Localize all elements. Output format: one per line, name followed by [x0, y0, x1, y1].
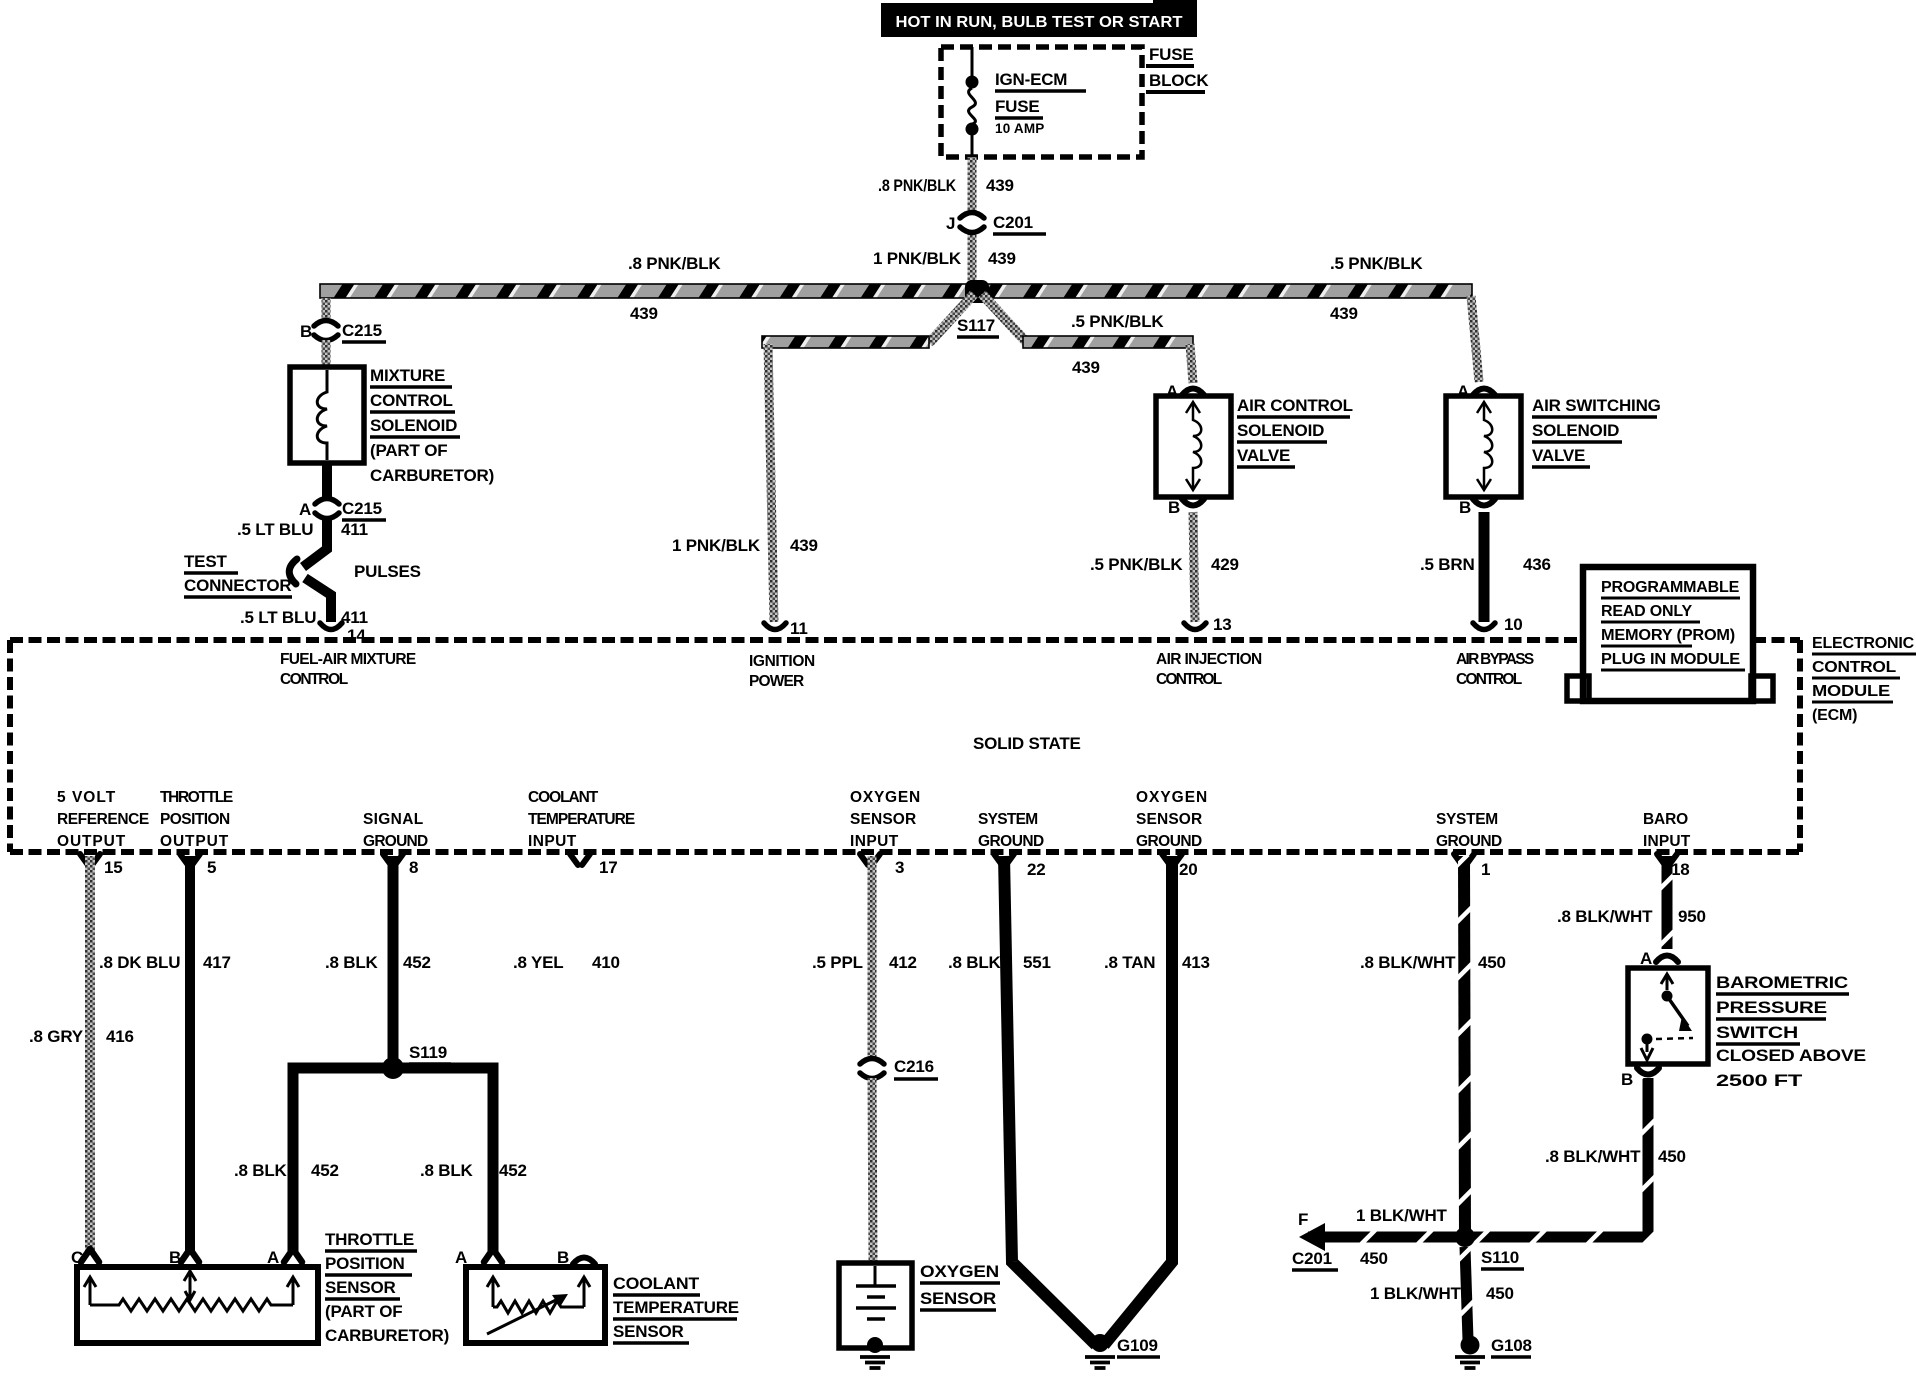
- svg-text:439: 439: [630, 304, 658, 323]
- svg-text:PROGRAMMABLE: PROGRAMMABLE: [1601, 579, 1740, 596]
- svg-text:MEMORY (PROM): MEMORY (PROM): [1601, 627, 1735, 644]
- svg-text:GROUND: GROUND: [1436, 833, 1502, 850]
- svg-text:.8 BLK/WHT: .8 BLK/WHT: [1557, 907, 1653, 926]
- svg-text:SENSOR: SENSOR: [850, 811, 916, 828]
- svg-text:450: 450: [1658, 1147, 1686, 1166]
- svg-text:MIXTURE: MIXTURE: [370, 366, 445, 385]
- svg-text:.8 PNK/BLK: .8 PNK/BLK: [878, 176, 957, 195]
- svg-text:(PART OF: (PART OF: [325, 1302, 402, 1321]
- svg-text:TEST: TEST: [184, 552, 227, 571]
- svg-text:.8 TAN: .8 TAN: [1104, 953, 1155, 972]
- svg-text:A: A: [1640, 949, 1652, 968]
- svg-text:.8 BLK: .8 BLK: [325, 953, 379, 972]
- svg-text:B: B: [300, 322, 312, 341]
- svg-text:A: A: [455, 1248, 467, 1267]
- svg-text:950: 950: [1678, 907, 1706, 926]
- svg-text:INPUT: INPUT: [850, 833, 899, 850]
- svg-text:J: J: [946, 214, 955, 233]
- svg-text:412: 412: [889, 953, 917, 972]
- svg-text:CONTROL: CONTROL: [1456, 671, 1522, 688]
- svg-text:OXYGEN: OXYGEN: [1136, 789, 1207, 806]
- svg-text:10 AMP: 10 AMP: [995, 121, 1044, 136]
- svg-text:439: 439: [1072, 358, 1100, 377]
- svg-text:.5 PPL: .5 PPL: [812, 953, 863, 972]
- svg-text:11: 11: [790, 619, 808, 638]
- svg-text:18: 18: [1671, 860, 1690, 879]
- svg-text:17: 17: [599, 858, 618, 877]
- svg-text:452: 452: [311, 1161, 339, 1180]
- svg-text:452: 452: [403, 953, 431, 972]
- svg-text:B: B: [1621, 1070, 1633, 1089]
- svg-text:BLOCK: BLOCK: [1149, 71, 1209, 90]
- svg-text:439: 439: [986, 176, 1014, 195]
- svg-text:AIR INJECTION: AIR INJECTION: [1156, 651, 1262, 668]
- svg-text:.8 BLK: .8 BLK: [420, 1161, 474, 1180]
- svg-text:SENSOR: SENSOR: [1136, 811, 1202, 828]
- svg-text:.5 PNK/BLK: .5 PNK/BLK: [1330, 254, 1423, 273]
- svg-text:411: 411: [341, 608, 368, 627]
- svg-text:.8 GRY: .8 GRY: [29, 1027, 84, 1046]
- svg-text:429: 429: [1211, 555, 1239, 574]
- svg-text:3: 3: [895, 858, 904, 877]
- svg-text:S119: S119: [409, 1043, 447, 1062]
- svg-text:CONTROL: CONTROL: [370, 391, 453, 410]
- svg-text:BARO: BARO: [1643, 811, 1688, 828]
- svg-text:A: A: [299, 500, 311, 519]
- svg-text:.5 PNK/BLK: .5 PNK/BLK: [1071, 312, 1164, 331]
- svg-text:439: 439: [1330, 304, 1358, 323]
- svg-text:.8 BLK: .8 BLK: [948, 953, 1002, 972]
- svg-text:452: 452: [499, 1161, 527, 1180]
- svg-text:OXYGEN: OXYGEN: [850, 789, 920, 806]
- svg-text:PULSES: PULSES: [354, 562, 421, 581]
- svg-text:FUSE: FUSE: [995, 97, 1040, 116]
- svg-text:410: 410: [592, 953, 620, 972]
- svg-text:GROUND: GROUND: [1136, 833, 1202, 850]
- svg-text:B: B: [1168, 498, 1180, 517]
- svg-text:COOLANT: COOLANT: [613, 1274, 700, 1293]
- svg-text:.8 PNK/BLK: .8 PNK/BLK: [628, 254, 721, 273]
- svg-text:8: 8: [409, 858, 418, 877]
- svg-text:C215: C215: [342, 321, 382, 340]
- svg-text:REFERENCE: REFERENCE: [57, 811, 149, 828]
- svg-text:POSITION: POSITION: [325, 1254, 405, 1273]
- svg-text:.8 DK BLU: .8 DK BLU: [99, 953, 180, 972]
- svg-text:SENSOR: SENSOR: [920, 1289, 996, 1308]
- svg-text:(PART OF: (PART OF: [370, 441, 447, 460]
- svg-text:SOLENOID: SOLENOID: [370, 416, 457, 435]
- svg-text:G108: G108: [1491, 1336, 1532, 1355]
- svg-text:POWER: POWER: [749, 673, 804, 690]
- svg-text:ELECTRONIC: ELECTRONIC: [1812, 635, 1915, 652]
- svg-text:C216: C216: [894, 1057, 934, 1076]
- svg-text:1 BLK/WHT: 1 BLK/WHT: [1370, 1284, 1462, 1303]
- svg-text:13: 13: [1213, 615, 1232, 634]
- svg-text:IGN-ECM: IGN-ECM: [995, 70, 1067, 89]
- svg-text:1 PNK/BLK: 1 PNK/BLK: [672, 536, 761, 555]
- svg-text:TEMPERATURE: TEMPERATURE: [528, 811, 635, 828]
- svg-text:417: 417: [203, 953, 231, 972]
- svg-text:FUEL-AIR MIXTURE: FUEL-AIR MIXTURE: [280, 651, 416, 668]
- svg-text:439: 439: [790, 536, 818, 555]
- svg-text:411: 411: [341, 520, 368, 539]
- svg-text:413: 413: [1182, 953, 1210, 972]
- svg-text:22: 22: [1027, 860, 1046, 879]
- svg-text:.8 YEL: .8 YEL: [513, 953, 563, 972]
- svg-text:.8 BLK/WHT: .8 BLK/WHT: [1360, 953, 1456, 972]
- svg-text:THROTTLE: THROTTLE: [160, 789, 233, 806]
- svg-text:CONNECTOR: CONNECTOR: [184, 576, 291, 595]
- svg-text:B: B: [1459, 498, 1471, 517]
- svg-text:C201: C201: [993, 213, 1033, 232]
- svg-text:5: 5: [207, 858, 216, 877]
- svg-text:THROTTLE: THROTTLE: [325, 1230, 414, 1249]
- svg-text:GROUND: GROUND: [978, 833, 1044, 850]
- svg-text:2500 FT: 2500 FT: [1716, 1071, 1803, 1090]
- svg-text:SWITCH: SWITCH: [1716, 1023, 1798, 1042]
- svg-text:S110: S110: [1481, 1248, 1519, 1267]
- svg-text:.8 BLK/WHT: .8 BLK/WHT: [1545, 1147, 1641, 1166]
- svg-text:SOLID STATE: SOLID STATE: [973, 734, 1081, 753]
- svg-text:CONTROL: CONTROL: [1812, 659, 1896, 676]
- svg-text:INPUT: INPUT: [528, 833, 577, 850]
- svg-text:PRESSURE: PRESSURE: [1716, 998, 1827, 1017]
- svg-text:1 PNK/BLK: 1 PNK/BLK: [873, 249, 962, 268]
- svg-text:5 VOLT: 5 VOLT: [57, 789, 116, 806]
- svg-text:551: 551: [1023, 953, 1051, 972]
- svg-text:.8 BLK: .8 BLK: [234, 1161, 288, 1180]
- svg-text:S117: S117: [957, 316, 995, 335]
- svg-text:CONTROL: CONTROL: [1156, 671, 1222, 688]
- svg-text:INPUT: INPUT: [1643, 833, 1691, 850]
- svg-text:CONTROL: CONTROL: [280, 671, 348, 688]
- svg-text:.5 PNK/BLK: .5 PNK/BLK: [1090, 555, 1183, 574]
- svg-text:COOLANT: COOLANT: [528, 789, 599, 806]
- svg-text:10: 10: [1504, 615, 1523, 634]
- svg-text:VALVE: VALVE: [1237, 446, 1290, 465]
- svg-text:C: C: [71, 1248, 83, 1267]
- svg-text:416: 416: [106, 1027, 134, 1046]
- svg-text:1 BLK/WHT: 1 BLK/WHT: [1356, 1206, 1448, 1225]
- svg-text:MODULE: MODULE: [1812, 683, 1891, 700]
- svg-text:SYSTEM: SYSTEM: [978, 811, 1038, 828]
- svg-text:VALVE: VALVE: [1532, 446, 1585, 465]
- svg-text:CARBURETOR): CARBURETOR): [370, 466, 494, 485]
- svg-text:C215: C215: [342, 499, 382, 518]
- svg-text:AIR BYPASS: AIR BYPASS: [1456, 651, 1534, 668]
- svg-text:450: 450: [1486, 1284, 1514, 1303]
- svg-text:SENSOR: SENSOR: [613, 1322, 684, 1341]
- svg-text:20: 20: [1179, 860, 1198, 879]
- svg-text:POSITION: POSITION: [160, 811, 230, 828]
- svg-text:436: 436: [1523, 555, 1551, 574]
- svg-text:439: 439: [988, 249, 1016, 268]
- svg-text:GROUND: GROUND: [363, 833, 428, 850]
- svg-text:(ECM): (ECM): [1812, 707, 1857, 724]
- svg-text:B: B: [169, 1248, 181, 1267]
- svg-text:SYSTEM: SYSTEM: [1436, 811, 1498, 828]
- svg-text:450: 450: [1360, 1249, 1388, 1268]
- svg-text:.5 LT BLU: .5 LT BLU: [240, 608, 316, 627]
- svg-text:SOLENOID: SOLENOID: [1532, 421, 1619, 440]
- svg-text:450: 450: [1478, 953, 1506, 972]
- svg-text:BAROMETRIC: BAROMETRIC: [1716, 973, 1848, 992]
- svg-text:OXYGEN: OXYGEN: [920, 1262, 999, 1281]
- svg-text:SENSOR: SENSOR: [325, 1278, 396, 1297]
- svg-text:AIR CONTROL: AIR CONTROL: [1237, 396, 1353, 415]
- svg-text:HOT IN RUN, BULB TEST OR START: HOT IN RUN, BULB TEST OR START: [896, 14, 1184, 31]
- svg-text:PLUG IN MODULE: PLUG IN MODULE: [1601, 651, 1741, 668]
- svg-text:.5 LT BLU: .5 LT BLU: [237, 520, 313, 539]
- svg-text:IGNITION: IGNITION: [749, 653, 815, 670]
- svg-text:AIR SWITCHING: AIR SWITCHING: [1532, 396, 1661, 415]
- svg-text:15: 15: [104, 858, 123, 877]
- svg-text:SIGNAL: SIGNAL: [363, 811, 423, 828]
- svg-text:SOLENOID: SOLENOID: [1237, 421, 1324, 440]
- svg-text:G109: G109: [1117, 1336, 1158, 1355]
- svg-text:B: B: [557, 1248, 569, 1267]
- svg-text:CLOSED ABOVE: CLOSED ABOVE: [1716, 1046, 1866, 1065]
- svg-text:C201: C201: [1292, 1249, 1332, 1268]
- svg-text:.5 BRN: .5 BRN: [1420, 555, 1475, 574]
- svg-text:1: 1: [1481, 860, 1490, 879]
- svg-text:TEMPERATURE: TEMPERATURE: [613, 1298, 739, 1317]
- svg-text:A: A: [267, 1248, 279, 1267]
- svg-text:FUSE: FUSE: [1149, 45, 1194, 64]
- svg-text:CARBURETOR): CARBURETOR): [325, 1326, 449, 1345]
- svg-text:READ ONLY: READ ONLY: [1601, 603, 1692, 620]
- svg-text:F: F: [1298, 1210, 1308, 1229]
